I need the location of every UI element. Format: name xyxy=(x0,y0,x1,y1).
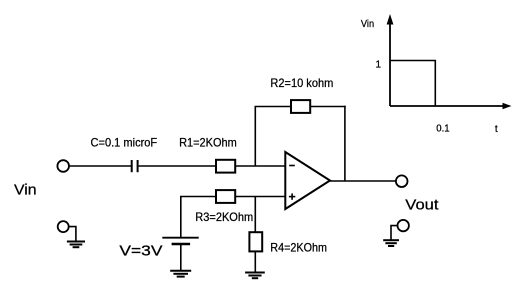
svg-text:R4=2KOhm: R4=2KOhm xyxy=(270,241,327,255)
wire left ground terminal to ground symbol xyxy=(69,227,76,242)
op-amp U1 xyxy=(285,152,330,209)
svg-text:C=0.1 microF: C=0.1 microF xyxy=(91,136,158,150)
input terminal node Vin xyxy=(57,160,69,172)
wire resistor R1 to op-amp inverting input, junction with R2 xyxy=(235,165,285,167)
svg-text:R1=2KOhm: R1=2KOhm xyxy=(179,136,237,150)
wire battery negative to ground xyxy=(180,245,182,271)
svg-text:R3=2KOhm: R3=2KOhm xyxy=(195,210,253,224)
svg-text:Vin: Vin xyxy=(14,181,37,198)
wire R3 to op-amp non-inverting input, junction with R4 xyxy=(235,196,285,198)
wire battery to resistor R3 (non-inverting branch), corner xyxy=(181,197,216,238)
output terminal node Vout xyxy=(396,175,408,187)
wire R2 right horizontal xyxy=(310,106,346,108)
wire feedback left leg from inverting input up to R2 xyxy=(254,107,256,167)
wire junction down to resistor R4 xyxy=(254,197,256,233)
wire input terminal to capacitor xyxy=(69,165,131,167)
svg-text:1: 1 xyxy=(376,60,382,71)
svg-text:Vout: Vout xyxy=(405,196,439,213)
wire right ground terminal to ground symbol xyxy=(391,226,398,241)
ground symbol right xyxy=(383,240,399,246)
wire resistor R4 to ground xyxy=(254,251,256,272)
ground under battery xyxy=(170,271,191,277)
wire feedback right leg from R2 down to output node xyxy=(344,106,346,181)
reference ground terminal right (circle) xyxy=(398,220,409,231)
ground symbol left xyxy=(67,242,85,248)
wire op-amp output to output terminal xyxy=(330,180,396,182)
graph x-axis t xyxy=(390,103,512,110)
svg-text:V=3V: V=3V xyxy=(119,242,162,259)
reference ground terminal left (circle) xyxy=(58,221,69,232)
resistor R3 xyxy=(216,190,235,203)
wire capacitor to resistor R1 xyxy=(139,165,216,167)
battery V1 xyxy=(162,238,198,244)
capacitor C1 xyxy=(132,160,138,172)
resistor R2 xyxy=(291,100,310,113)
resistor R4 xyxy=(249,232,262,251)
graph step waveform xyxy=(390,61,435,107)
graph Vin vs t : y-axis xyxy=(387,14,394,106)
svg-text:R2=10 kohm: R2=10 kohm xyxy=(270,76,333,90)
svg-text:t: t xyxy=(495,124,498,135)
wire R2 left horizontal xyxy=(255,106,292,108)
resistor R1 xyxy=(216,160,235,173)
svg-text:0.1: 0.1 xyxy=(436,124,450,135)
svg-text:Vin: Vin xyxy=(361,19,374,30)
ground under R4 xyxy=(245,273,265,279)
